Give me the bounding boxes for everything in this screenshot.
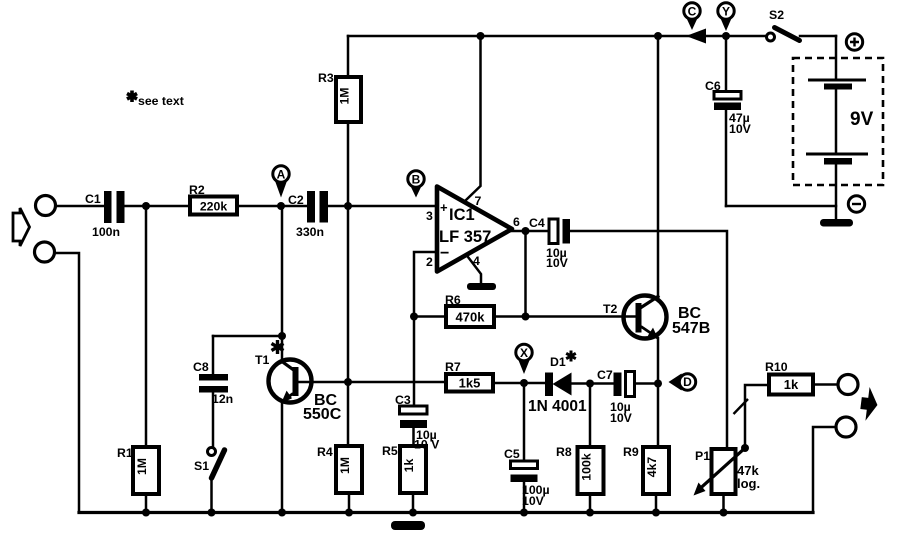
capacitor C2 (288, 191, 328, 239)
wire: top rail after switch S2 (800, 35, 836, 38)
svg-text:R1: R1 (117, 446, 133, 460)
wire: R4 to rail (348, 493, 351, 513)
node: rail junction P1 (720, 509, 728, 517)
wire: R6 right to T2 base (494, 315, 636, 318)
output jack upper terminal (838, 375, 858, 395)
wire: C4 to P1 (570, 231, 727, 449)
input jack lower terminal (35, 242, 55, 262)
resistor R4 (317, 445, 362, 493)
resistor R1 (117, 446, 159, 494)
wire: upper jack to C1 (56, 205, 104, 208)
battery minus terminal symbol (848, 196, 864, 212)
svg-text:9V: 9V (850, 109, 874, 130)
node A marker (273, 166, 289, 198)
capacitor C5 (504, 383, 550, 513)
svg-text:P1: P1 (695, 449, 710, 463)
ground at pin 4 (467, 283, 496, 290)
svg-text:−: − (440, 245, 449, 262)
resistor R2 (189, 183, 237, 215)
node A junction (277, 202, 285, 210)
svg-text:R8: R8 (556, 445, 572, 459)
transistor T1 (BC550C) (255, 340, 342, 423)
wire: node A down to T1 collector (281, 206, 284, 361)
wire: down to R1 (145, 206, 148, 447)
svg-text:R9: R9 (623, 445, 639, 459)
node: rail junction R4 (345, 509, 353, 517)
wire: C1 to R2 (125, 205, 191, 208)
resistor R5 (382, 444, 426, 513)
resistor R8 (556, 384, 604, 513)
wiper break mark (734, 399, 749, 414)
node D marker (669, 374, 696, 391)
svg-text:1k: 1k (784, 377, 799, 392)
node: Y junction on rail (722, 32, 730, 40)
node: output junction (522, 227, 530, 235)
node: junction R3/R4 bias on signal wire (344, 202, 352, 210)
svg-text:X: X (520, 346, 528, 360)
svg-text:D: D (683, 375, 692, 389)
node: pin7 junction on rail (477, 32, 485, 40)
svg-text:R3: R3 (318, 71, 334, 85)
input jack upper terminal (36, 196, 56, 216)
svg-text:2: 2 (426, 255, 433, 269)
svg-text:R5: R5 (382, 444, 398, 458)
battery plus terminal symbol (846, 34, 862, 50)
svg-text:A: A (277, 168, 286, 182)
wire: T1 base to R7 (299, 381, 447, 384)
node: rail junction R8 (586, 509, 594, 517)
svg-text:T2: T2 (603, 302, 618, 316)
resistor R7 (445, 360, 493, 392)
wire: T1 emitter to rail (281, 402, 284, 513)
wire: T2 collector to rail (657, 36, 660, 297)
svg-text:100n: 100n (92, 225, 120, 239)
svg-text:T1: T1 (255, 353, 270, 367)
C3 value label (414, 428, 440, 452)
svg-text:470k: 470k (456, 310, 486, 325)
svg-text:C4: C4 (529, 216, 545, 230)
wire: rail down to battery + (835, 36, 838, 80)
capacitor C6 (705, 36, 752, 206)
wire: R2 to C2 (237, 205, 307, 208)
op-amp IC1 LF357 (426, 187, 520, 272)
svg-text:547B: 547B (672, 320, 710, 337)
resistor R3 (318, 36, 361, 206)
potentiometer P1 (694, 444, 761, 496)
svg-text:1N 4001: 1N 4001 (528, 398, 587, 415)
svg-text:7: 7 (475, 194, 482, 208)
svg-text:S2: S2 (769, 8, 784, 22)
svg-text:10V: 10V (610, 411, 633, 425)
capacitor C3 (395, 393, 427, 446)
svg-text:10V: 10V (729, 122, 752, 136)
wire: R7 to D1 (493, 382, 546, 385)
node: rail junction R5/ground (409, 509, 417, 517)
svg-text:B: B (412, 173, 421, 187)
svg-text:6: 6 (513, 215, 520, 229)
node: C8 branch junction (278, 332, 286, 340)
resistor R9 (623, 445, 669, 513)
capacitor C7 (597, 368, 635, 425)
node: rail junction R9 (652, 509, 660, 517)
wire: C7 to T2 emitter (635, 382, 658, 385)
svg-text:C8: C8 (193, 360, 209, 374)
svg-text:12n: 12n (212, 392, 233, 406)
switch S1 (194, 448, 225, 513)
wire: bias node down to T1 base junction (347, 206, 350, 446)
svg-text:330n: 330n (296, 225, 324, 239)
wire: C6 bottom to battery minus (726, 205, 836, 208)
node: R6 right junction (522, 313, 530, 321)
svg-text:1M: 1M (338, 457, 352, 474)
svg-text:10V: 10V (546, 256, 569, 270)
svg-text:IC1: IC1 (449, 206, 475, 224)
diode D1 (1N4001) (528, 351, 587, 416)
wire: battery minus down (835, 164, 838, 219)
svg-text:4k7: 4k7 (645, 457, 659, 478)
wire: P1 bottom to rail (722, 494, 725, 513)
wire: pin 4 to ground (468, 257, 481, 283)
svg-text:R10: R10 (765, 360, 788, 374)
capacitor C1 (85, 191, 125, 239)
battery cell 1 (808, 80, 866, 90)
wire: P1 wiper up to R10 (745, 385, 769, 448)
svg-text:log.: log. (737, 476, 760, 491)
svg-text:C2: C2 (288, 193, 304, 207)
node: rail junction T1 emitter (278, 509, 286, 517)
svg-text:C5: C5 (504, 447, 520, 461)
svg-text:R7: R7 (445, 360, 461, 374)
svg-text:1k5: 1k5 (459, 376, 481, 391)
wire: R10 to output jack (813, 383, 838, 386)
svg-text:D1: D1 (550, 355, 566, 369)
svg-text:C: C (688, 5, 697, 19)
wire: T2 emitter down (657, 338, 660, 447)
node X junction (520, 379, 528, 387)
resistor R10 (765, 360, 813, 395)
output jack lower terminal (836, 417, 856, 437)
capacitor C8 (193, 336, 233, 448)
wire: top rail (348, 35, 766, 38)
node: junction C1/R1 (142, 202, 150, 210)
svg-text:10V: 10V (522, 494, 545, 508)
svg-text:1M: 1M (135, 458, 149, 475)
node: base/bias junction (344, 378, 352, 386)
capacitor C4 (529, 216, 570, 270)
node: rail junction R1 (142, 509, 150, 517)
node: T2 collector junction on rail (654, 32, 662, 40)
node: rail junction C5 (520, 509, 528, 517)
transistor T2 (BC547B) (603, 296, 710, 340)
node B marker (408, 171, 424, 198)
svg-text:220k: 220k (200, 200, 228, 214)
ground under battery (820, 219, 853, 227)
wire: bottom rail (79, 511, 813, 514)
note: see text (127, 91, 184, 109)
wire: C2 to op-amp pin 3 (328, 205, 437, 208)
wire: D1 to R8/C7 (572, 382, 615, 385)
svg-text:R4: R4 (317, 445, 333, 459)
node: rail junction S1 (208, 509, 216, 517)
battery cell 2 (806, 154, 868, 165)
svg-text:R6: R6 (445, 293, 461, 307)
wire: op-amp output (510, 230, 549, 233)
input arrow (13, 208, 30, 246)
switch S2 (767, 8, 800, 41)
svg-text:+: + (440, 200, 448, 215)
node X marker (516, 344, 532, 374)
wire: R6 left (414, 315, 446, 318)
svg-text:1M: 1M (338, 87, 352, 104)
svg-text:1k: 1k (402, 459, 416, 473)
node: R8/C7 junction (586, 380, 594, 388)
node C marker (684, 3, 700, 30)
svg-text:LF 357: LF 357 (439, 228, 491, 246)
svg-text:Y: Y (722, 5, 730, 19)
wire: R1 to rail (145, 494, 148, 513)
wire: lower output jack to rail (813, 427, 836, 513)
svg-text:100k: 100k (580, 453, 594, 481)
wire: output down to R6 (524, 231, 527, 317)
battery 9V dashed outline (793, 58, 883, 185)
wire: C8 branch horizontal (213, 335, 282, 338)
wire: pin 2 to feedback node (414, 252, 437, 406)
node: R6 left junction (410, 313, 418, 321)
svg-text:C1: C1 (85, 192, 101, 206)
node Y marker (718, 3, 734, 31)
output arrow (859, 386, 880, 422)
wire: pin 7 to rail (466, 36, 481, 200)
svg-text:R2: R2 (189, 183, 205, 197)
wire: between battery cells (835, 89, 838, 153)
svg-text:3: 3 (426, 209, 433, 223)
svg-text:S1: S1 (194, 459, 209, 473)
svg-text:see text: see text (138, 94, 184, 108)
ground below R5 (391, 521, 425, 530)
node: emitter junction (654, 380, 662, 388)
svg-text:550C: 550C (303, 406, 342, 423)
wire: lower jack to bottom rail (55, 253, 79, 513)
svg-text:C7: C7 (597, 368, 613, 382)
resistor R6 (445, 293, 494, 327)
arrow on supply rail (points left) (686, 29, 706, 44)
svg-text:10 V: 10 V (414, 438, 440, 452)
